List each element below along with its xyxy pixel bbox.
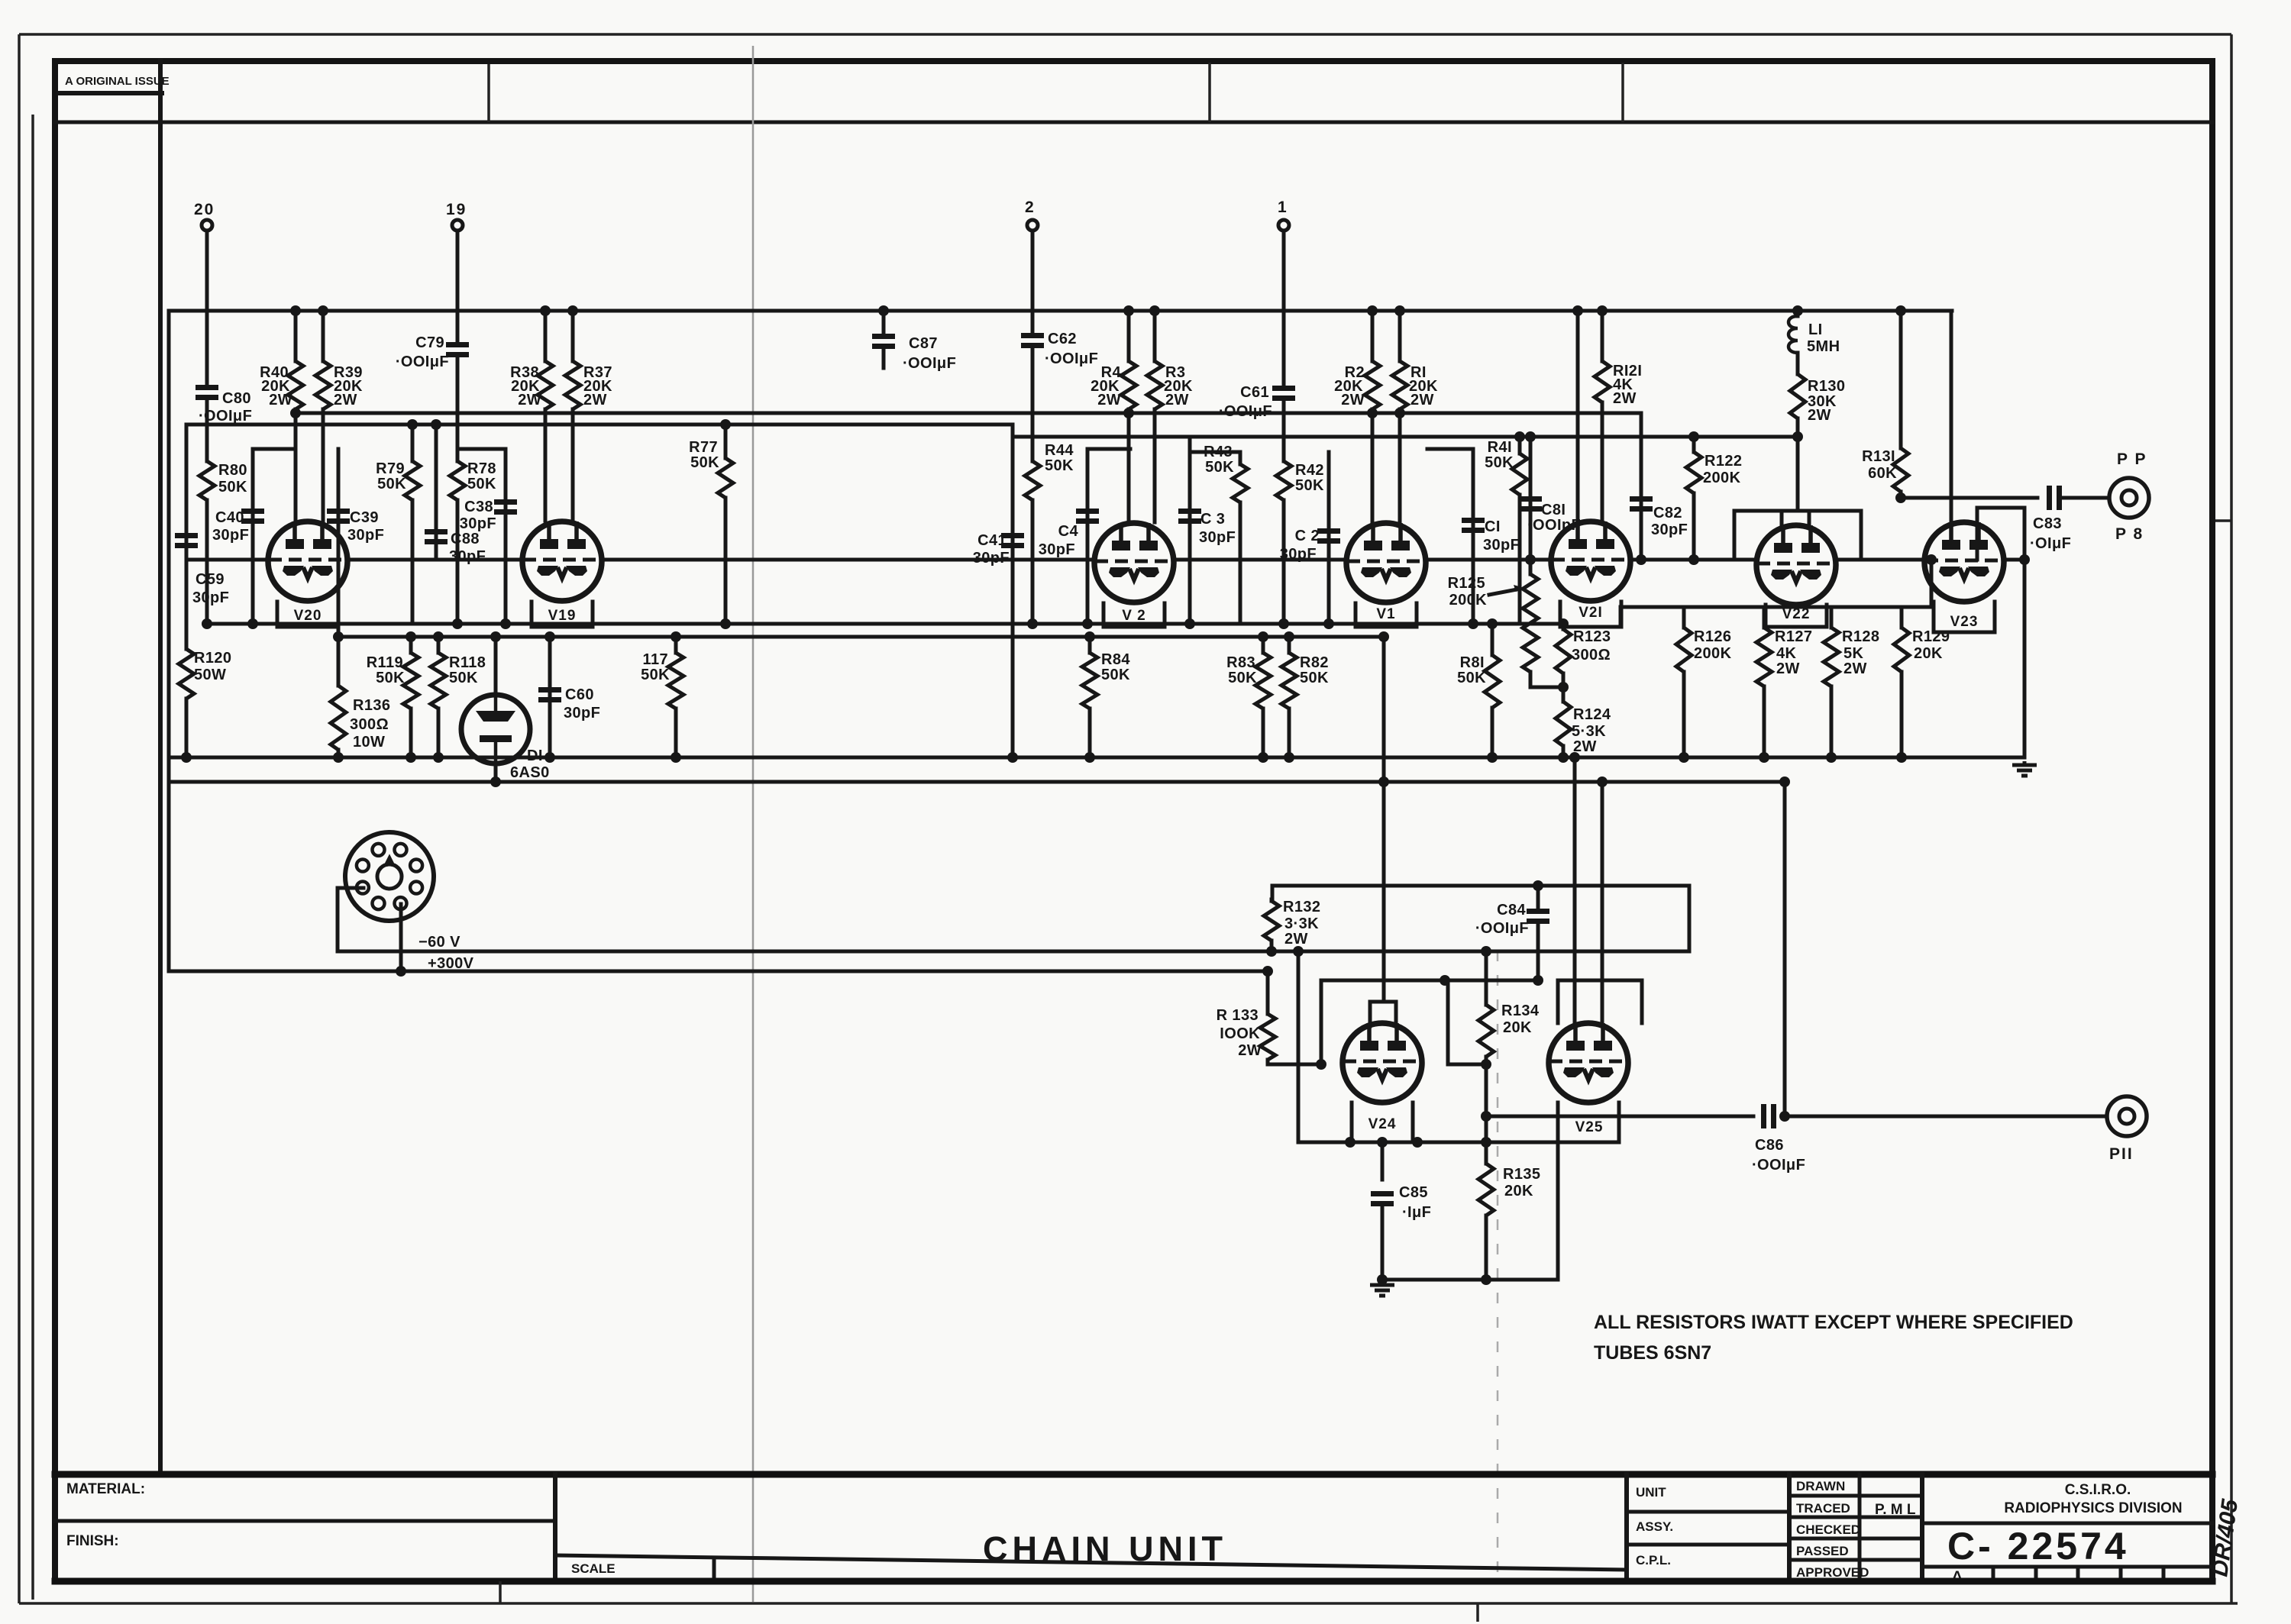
svg-text:2W: 2W — [1097, 392, 1121, 408]
svg-text:50K: 50K — [1295, 477, 1324, 494]
wire V21 plate leads — [1576, 311, 1580, 521]
capacitor C60 — [548, 637, 552, 757]
svg-text:R134: R134 — [1501, 1002, 1540, 1019]
svg-text:C62: C62 — [1048, 331, 1077, 347]
capacitor C81 — [1529, 437, 1533, 560]
capacitor C61 — [1272, 386, 1295, 391]
svg-text:V25: V25 — [1575, 1119, 1604, 1135]
V22 name box — [1766, 605, 1827, 627]
capacitor C3 — [1188, 437, 1192, 624]
title block bottom — [55, 1578, 2212, 1585]
capacitor C80 — [195, 385, 218, 390]
terminal 1 — [1278, 220, 1289, 231]
svg-text:300Ω: 300Ω — [350, 716, 389, 733]
resistor R136 — [337, 637, 341, 686]
wire V23 plate lead — [1950, 311, 1953, 522]
svg-text:2W: 2W — [1776, 660, 1800, 677]
svg-text:·OOIμF: ·OOIμF — [1219, 403, 1272, 420]
svg-text:C.S.I.R.O.: C.S.I.R.O. — [2065, 1482, 2131, 1498]
svg-text:R78: R78 — [467, 460, 496, 477]
svg-text:50K: 50K — [641, 667, 670, 683]
resistor R123 — [1562, 624, 1566, 629]
svg-text:30pF: 30pF — [192, 589, 229, 606]
resistor R77 — [724, 425, 728, 458]
junction dots B+ bus — [290, 305, 301, 316]
svg-text:R43: R43 — [1204, 444, 1233, 460]
svg-text:V22: V22 — [1782, 606, 1811, 622]
resistor R124 — [1562, 687, 1566, 702]
connector PP/P8 — [2109, 478, 2149, 518]
resistor R119 — [409, 637, 413, 653]
svg-text:200K: 200K — [1694, 645, 1732, 662]
svg-text:200K: 200K — [1703, 470, 1741, 486]
junction dots plate line — [290, 408, 301, 418]
svg-text:30pF: 30pF — [212, 527, 249, 544]
svg-text:SCALE: SCALE — [571, 1561, 616, 1576]
svg-text:PASSED: PASSED — [1796, 1544, 1849, 1558]
svg-text:R77: R77 — [689, 439, 718, 456]
resistor R118 — [437, 637, 441, 653]
svg-text:V24: V24 — [1368, 1116, 1397, 1132]
svg-text:C60: C60 — [565, 686, 594, 703]
svg-text:30pF: 30pF — [347, 527, 384, 544]
capacitor C1 — [1472, 449, 1475, 624]
svg-text:50K: 50K — [1228, 670, 1257, 686]
svg-text:2W: 2W — [1165, 392, 1189, 408]
svg-text:2W: 2W — [1613, 390, 1637, 407]
svg-text:IOOK: IOOK — [1220, 1025, 1260, 1042]
svg-text:30pF: 30pF — [564, 705, 600, 722]
svg-text:300Ω: 300Ω — [1572, 647, 1611, 663]
svg-text:30pF: 30pF — [460, 515, 496, 532]
svg-text:R79: R79 — [376, 460, 405, 477]
tube V19 — [522, 521, 602, 601]
resistor R41 — [1518, 437, 1522, 454]
svg-text:CHAIN UNIT: CHAIN UNIT — [983, 1529, 1227, 1568]
svg-text:30pF: 30pF — [973, 550, 1010, 567]
resistor R81 — [1491, 624, 1494, 655]
tube V25 — [1549, 1023, 1628, 1103]
resistor R122 — [1692, 437, 1696, 452]
svg-text:2W: 2W — [518, 392, 541, 408]
svg-text:A ORIGINAL ISSUE: A ORIGINAL ISSUE — [65, 75, 170, 88]
resistor R128 — [1830, 607, 1834, 628]
svg-text:R84: R84 — [1101, 651, 1130, 668]
V25 grid box — [1558, 980, 1642, 1023]
resistor R82 — [1288, 637, 1291, 653]
svg-text:R130: R130 — [1808, 378, 1845, 395]
capacitor C85 — [1381, 1142, 1385, 1180]
svg-text:R123: R123 — [1573, 628, 1611, 645]
wire plate to C83 — [1901, 496, 2037, 500]
svg-text:50K: 50K — [449, 670, 478, 686]
svg-text:50K: 50K — [1300, 670, 1329, 686]
svg-text:20K: 20K — [1503, 1019, 1532, 1036]
svg-text:C61: C61 — [1240, 384, 1269, 401]
svg-text:200K: 200K — [1449, 592, 1488, 609]
svg-text:50K: 50K — [1457, 670, 1486, 686]
resistor R134 — [1485, 951, 1488, 1005]
resistor R126 — [1682, 607, 1686, 628]
svg-text:2W: 2W — [1284, 931, 1308, 948]
resistor R132 — [1270, 899, 1274, 901]
wire -60V line — [338, 950, 1689, 954]
scale cell — [555, 1555, 1627, 1570]
svg-text:50W: 50W — [194, 667, 226, 683]
resistor R135 — [1485, 1116, 1488, 1164]
capacitor C41 — [1011, 425, 1015, 757]
svg-text:V23: V23 — [1950, 614, 1979, 630]
frame subline — [55, 121, 2212, 124]
drawn/traced box — [1787, 1474, 1792, 1581]
resistor R3 — [1153, 311, 1157, 361]
wire second bus — [169, 780, 1785, 784]
title block MATERIAL/FINISH divider — [55, 1519, 555, 1523]
svg-text:·OIμF: ·OIμF — [2030, 535, 2071, 552]
svg-text:R125: R125 — [1448, 575, 1485, 592]
svg-text:·OOIμF: ·OOIμF — [1752, 1157, 1805, 1174]
svg-text:C41: C41 — [977, 532, 1007, 549]
junction dots cathode lines — [202, 618, 212, 629]
svg-text:R120: R120 — [194, 650, 231, 667]
svg-text:10W: 10W — [353, 734, 385, 751]
tube V24 — [1343, 1023, 1422, 1103]
svg-text:2W: 2W — [583, 392, 607, 408]
title block top line — [55, 1471, 2212, 1478]
svg-text:CHECKED: CHECKED — [1796, 1522, 1860, 1537]
svg-text:R118: R118 — [449, 654, 486, 671]
svg-text:APPROVED: APPROVED — [1796, 1565, 1869, 1580]
resistor R1 — [1398, 311, 1402, 361]
svg-text:20: 20 — [194, 201, 215, 218]
svg-text:60K: 60K — [1868, 465, 1897, 482]
svg-text:50K: 50K — [467, 476, 496, 492]
ground at C85 — [1370, 1281, 1394, 1296]
resistor R37 — [571, 311, 575, 361]
svg-text:50K: 50K — [1485, 454, 1514, 471]
svg-text:30pF: 30pF — [1280, 546, 1317, 563]
svg-text:C38: C38 — [464, 499, 493, 515]
wire V2 plate leads — [1127, 413, 1131, 522]
octal socket — [345, 832, 434, 921]
resistor R129 — [1900, 607, 1904, 628]
resistor R2 — [1371, 311, 1375, 361]
wire +300V line — [169, 970, 1268, 973]
svg-text:R132: R132 — [1283, 899, 1320, 915]
sheet outer border — [18, 34, 21, 1603]
wire terminal 2 lead — [1031, 231, 1035, 334]
svg-text:C.P.L.: C.P.L. — [1636, 1553, 1671, 1567]
svg-text:20K: 20K — [1504, 1183, 1533, 1199]
junction dots ground bus — [181, 752, 192, 763]
svg-text:−60 V: −60 V — [418, 934, 460, 951]
capacitor C2 — [1327, 452, 1331, 624]
capacitor C83 — [2047, 486, 2052, 510]
svg-text:·OOIμF: ·OOIμF — [1475, 920, 1529, 937]
svg-text:R13I: R13I — [1862, 448, 1895, 465]
svg-text:50K: 50K — [218, 479, 247, 496]
svg-text:ALL RESISTORS IWATT EXCEPT: ALL RESISTORS IWATT EXCEPT WHERE SPECIFI… — [1594, 1312, 2073, 1333]
svg-text:2W: 2W — [1410, 392, 1434, 408]
resistor R42 — [1282, 400, 1286, 461]
svg-text:C87: C87 — [909, 335, 938, 352]
resistor R84 — [1088, 637, 1092, 653]
svg-text:2W: 2W — [1843, 660, 1867, 677]
tube V22 — [1756, 525, 1836, 605]
svg-text:P. M L: P. M L — [1875, 1502, 1916, 1518]
svg-text:20K: 20K — [1914, 645, 1943, 662]
svg-text:·OOIμF: ·OOIμF — [1045, 350, 1098, 367]
svg-text:R44: R44 — [1045, 442, 1074, 459]
wire R130 to V22 — [1796, 437, 1800, 511]
resistor R120 — [185, 626, 189, 649]
svg-text:50K: 50K — [377, 476, 406, 492]
terminal 2 — [1027, 220, 1038, 231]
ground at ground-bus end — [2012, 761, 2037, 776]
svg-text:R 133: R 133 — [1217, 1007, 1259, 1024]
wire output line — [1486, 1115, 1753, 1119]
svg-text:C59: C59 — [195, 571, 225, 588]
svg-text:C 2: C 2 — [1295, 528, 1320, 544]
wire V19 plate leads — [544, 413, 548, 521]
resistor R79 — [411, 425, 415, 461]
svg-text:FINISH:: FINISH: — [66, 1533, 119, 1549]
svg-text:·OOIμF: ·OOIμF — [903, 355, 956, 372]
svg-text:C84: C84 — [1497, 902, 1526, 919]
wire output to P11 — [1784, 1115, 2105, 1119]
unit/assy/cpl box — [1624, 1474, 1629, 1581]
svg-text:C40: C40 — [215, 509, 244, 526]
capacitor C59 — [185, 560, 189, 649]
csiro box — [1920, 1474, 1924, 1581]
V20 name box — [277, 602, 338, 627]
svg-text:P P: P P — [2117, 450, 2147, 468]
terminal 20 — [202, 220, 212, 231]
V23 grid box — [1977, 508, 2024, 560]
capacitor C79 — [446, 342, 469, 347]
capacitor C86 — [1761, 1104, 1766, 1128]
svg-text:DI: DI — [527, 747, 543, 764]
wire V20 plate leads — [294, 413, 298, 521]
svg-text:V20: V20 — [294, 608, 322, 624]
svg-text:TRACED: TRACED — [1796, 1501, 1850, 1516]
svg-text:R42: R42 — [1295, 462, 1324, 479]
svg-text:C83: C83 — [2033, 515, 2062, 532]
connector P11 — [2107, 1096, 2147, 1136]
svg-text:R135: R135 — [1503, 1166, 1540, 1183]
svg-text:V1: V1 — [1376, 606, 1395, 622]
resistor R43 — [1239, 452, 1242, 464]
svg-text:1: 1 — [1278, 199, 1288, 216]
svg-text:UNIT: UNIT — [1636, 1485, 1666, 1500]
svg-text:2W: 2W — [269, 392, 292, 408]
V22 grid box — [1734, 511, 1861, 559]
tube V20 — [268, 521, 347, 601]
svg-text:R83: R83 — [1226, 654, 1255, 671]
resistor R78 — [456, 357, 460, 461]
svg-text:2W: 2W — [334, 392, 357, 408]
svg-text:C39: C39 — [350, 509, 379, 526]
resistor 117 — [674, 637, 678, 653]
resistor R83 — [1262, 637, 1265, 653]
capacitor C82 — [1640, 413, 1643, 560]
svg-text:2W: 2W — [1238, 1042, 1262, 1059]
svg-text:50K: 50K — [1045, 457, 1074, 474]
wire V21-V23 interconnect — [1621, 605, 1931, 609]
svg-text:R128: R128 — [1842, 628, 1879, 645]
capacitor C88 — [435, 425, 438, 560]
svg-text:C86: C86 — [1755, 1137, 1784, 1154]
resistor R38 — [544, 311, 548, 361]
svg-text:V2I: V2I — [1578, 605, 1603, 621]
resistor R125 potentiometer — [1529, 560, 1533, 574]
svg-text:C- 22574: C- 22574 — [1947, 1525, 2129, 1567]
wire plate feed line — [296, 412, 1641, 415]
resistor R39 — [322, 311, 325, 361]
svg-text:3·3K: 3·3K — [1284, 915, 1319, 932]
wire grid return right — [1014, 435, 1798, 439]
V24 grid box — [1321, 980, 1448, 1064]
svg-text:R126: R126 — [1694, 628, 1731, 645]
svg-text:LI: LI — [1808, 321, 1823, 338]
svg-text:R80: R80 — [218, 462, 247, 479]
resistor R44 — [1031, 347, 1035, 461]
svg-text:C85: C85 — [1399, 1184, 1428, 1201]
svg-text:+300V: +300V — [428, 955, 474, 972]
V23 name box — [1934, 602, 1995, 632]
resistor R131 — [1899, 311, 1903, 448]
svg-text:·OOIμF: ·OOIμF — [396, 354, 449, 370]
svg-text:C80: C80 — [222, 390, 251, 407]
wire grid bus — [186, 558, 267, 562]
capacitor C4 — [1086, 449, 1090, 624]
wire B+ bus — [169, 309, 1952, 313]
svg-text:R82: R82 — [1300, 654, 1329, 671]
svg-text:C4: C4 — [1058, 523, 1079, 540]
svg-text:5K: 5K — [1843, 645, 1864, 662]
wire C85 ground line — [1382, 1278, 1558, 1282]
svg-text:R8I: R8I — [1460, 654, 1485, 671]
svg-text:RADIOPHYSICS DIVISION: RADIOPHYSICS DIVISION — [2004, 1500, 2182, 1516]
junction dots grid return — [407, 419, 418, 430]
svg-text:C 3: C 3 — [1200, 511, 1225, 528]
svg-text:R122: R122 — [1705, 453, 1742, 470]
capacitor C40 — [251, 449, 255, 624]
capacitor C38 — [504, 449, 508, 624]
V21 name box — [1560, 602, 1621, 627]
resistor R80 — [205, 399, 209, 461]
wire V24 bottom line — [1298, 1141, 1559, 1145]
svg-text:C8I: C8I — [1541, 502, 1566, 518]
V24 grid cap — [1370, 1002, 1396, 1026]
wire R133 to V24 box — [1268, 1063, 1321, 1067]
svg-text:5·3K: 5·3K — [1572, 723, 1606, 740]
resistor R4 — [1127, 311, 1131, 361]
inductor L1 — [1796, 311, 1800, 316]
V19 name box — [532, 602, 593, 627]
tube V21 — [1551, 521, 1630, 601]
V25 name box — [1558, 1103, 1619, 1142]
tube V1 — [1346, 523, 1426, 602]
resistor R133 — [1266, 971, 1270, 1014]
svg-text:R4I: R4I — [1488, 439, 1512, 456]
svg-text:30pF: 30pF — [1483, 537, 1520, 554]
svg-text:R136: R136 — [353, 697, 390, 714]
svg-text:V 2: V 2 — [1122, 608, 1146, 624]
wire terminal 20 lead — [205, 231, 209, 386]
wire stage box top — [1272, 884, 1689, 888]
svg-text:2W: 2W — [1808, 407, 1831, 424]
svg-text:V19: V19 — [548, 608, 577, 624]
svg-text:ASSY.: ASSY. — [1636, 1519, 1673, 1534]
wire V25 top leads — [1573, 757, 1577, 1023]
svg-text:DRAWN: DRAWN — [1796, 1479, 1845, 1493]
faint crease right — [1497, 951, 1499, 1579]
svg-text:50K: 50K — [376, 670, 405, 686]
wire cathode line lower — [338, 635, 1384, 639]
svg-text:R127: R127 — [1775, 628, 1812, 645]
tube V23 — [1924, 522, 2004, 602]
svg-text:TUBES 6SN7: TUBES 6SN7 — [1594, 1342, 1711, 1364]
svg-text:·IμF: ·IμF — [1402, 1204, 1431, 1221]
svg-text:30pF: 30pF — [1651, 521, 1688, 538]
revision strip — [1922, 1565, 2212, 1569]
junction dots grid bus — [1525, 554, 1536, 565]
svg-text:50K: 50K — [1205, 459, 1234, 476]
V2 name box — [1103, 603, 1165, 627]
svg-text:2W: 2W — [1341, 392, 1365, 408]
svg-text:30pF: 30pF — [1199, 529, 1236, 546]
resistor R127 — [1763, 607, 1766, 628]
V24 name box — [1352, 1103, 1413, 1142]
revision note box A ORIGINAL ISSUE — [59, 91, 162, 95]
svg-text:C82: C82 — [1653, 505, 1682, 521]
svg-text:R119: R119 — [367, 654, 403, 671]
svg-text:C79: C79 — [415, 334, 444, 351]
svg-text:50K: 50K — [690, 454, 719, 471]
svg-text:6AS0: 6AS0 — [510, 764, 550, 781]
svg-text:MATERIAL:: MATERIAL: — [66, 1481, 145, 1497]
svg-text:5MH: 5MH — [1807, 338, 1840, 355]
svg-text:30pF: 30pF — [449, 548, 486, 565]
svg-text:19: 19 — [446, 201, 467, 218]
wire cathode line upper — [207, 622, 1563, 626]
wire ground bus — [169, 756, 2024, 760]
svg-text:50K: 50K — [1101, 667, 1130, 683]
wire grid return left — [186, 423, 1013, 427]
capacitor C87 — [882, 311, 886, 334]
junction dots lower stage — [1558, 682, 1569, 693]
diode tube D1 — [494, 637, 498, 696]
svg-text:C88: C88 — [451, 531, 480, 547]
svg-text:PII: PII — [2109, 1145, 2134, 1163]
fold crease — [752, 46, 755, 1602]
wire V22 plate leads — [1780, 511, 1784, 525]
wire socket to -60V line — [338, 888, 364, 951]
svg-text:R124: R124 — [1573, 706, 1611, 723]
svg-text:117: 117 — [643, 651, 668, 668]
resistor R130 — [1796, 353, 1800, 374]
wire V1 plate leads — [1371, 413, 1375, 522]
capacitor C62 — [1021, 333, 1044, 338]
terminal 19 — [452, 220, 463, 231]
wire terminal 19 lead — [456, 231, 460, 343]
capacitor C39 — [337, 449, 341, 637]
V1 name box — [1356, 603, 1417, 627]
svg-text:4K: 4K — [1776, 645, 1797, 662]
wire socket to +300V line — [399, 904, 403, 971]
junction dots second bus — [490, 776, 501, 787]
